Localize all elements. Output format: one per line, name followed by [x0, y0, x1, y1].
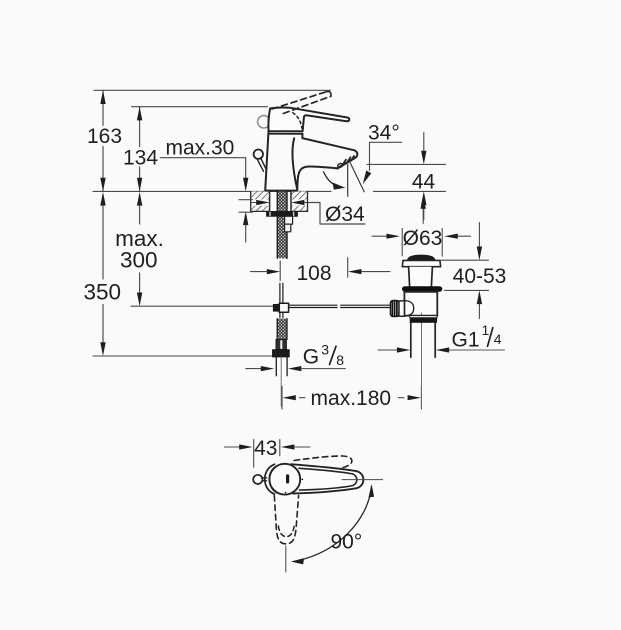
- waste O-ring seal: [402, 286, 442, 292]
- supply threaded rod: [277, 319, 287, 340]
- svg-text:34°: 34°: [368, 122, 400, 145]
- svg-text:90°: 90°: [331, 530, 363, 553]
- svg-text:300: 300: [120, 248, 158, 273]
- pull rod knob: [254, 150, 267, 172]
- lever up position dashed: [294, 456, 352, 468]
- reference line raised-handle top: [94, 89, 331, 91]
- svg-text:Ø63: Ø63: [403, 227, 443, 250]
- waste body: [404, 292, 437, 316]
- horizontal actuating rod: [289, 305, 391, 307]
- horizontal centerline: [342, 479, 383, 481]
- 90 degree swing arc: [291, 484, 374, 564]
- 34 degree stream annotation: [324, 122, 402, 197]
- supply hex nut G3/8: [273, 350, 290, 357]
- pull rod cross fitting: [273, 303, 289, 317]
- centerline below faucet: [280, 357, 282, 406]
- waste knob collar: [399, 301, 405, 316]
- svg-text:G1: G1: [452, 329, 480, 352]
- lever closed position dashed: [274, 496, 298, 544]
- dimension Ø34 arrows and leader: [252, 200, 366, 226]
- handle lever and cap: [268, 107, 349, 133]
- mounting flange washer: [267, 211, 298, 216]
- waste plug flange: [402, 260, 440, 266]
- supply pipe stub: [276, 357, 287, 376]
- pop-up pull rod upper: [280, 283, 283, 303]
- svg-text:1: 1: [482, 322, 490, 338]
- pop-up travel arrow: [421, 196, 426, 224]
- dimension 44: [367, 133, 446, 220]
- handle raised-position ghost bump: [258, 116, 270, 128]
- dimension 108: [251, 258, 391, 286]
- deck slab right block with hatch: [291, 191, 309, 211]
- svg-text:108: 108: [296, 262, 331, 285]
- reference line supply connection level: [93, 355, 273, 357]
- waste plug dome: [408, 255, 435, 260]
- waste control knob knurled: [390, 301, 399, 317]
- supply collar: [276, 339, 286, 349]
- reference line deck surface: [93, 190, 446, 192]
- reference line pop-up rod level: [131, 305, 273, 307]
- svg-text:40-53: 40-53: [453, 265, 507, 288]
- svg-text:4: 4: [494, 331, 502, 347]
- dimension 163: [87, 90, 122, 191]
- waste neck: [409, 267, 433, 287]
- deck slab left block with hatch: [239, 191, 270, 212]
- svg-text:350: 350: [84, 280, 122, 305]
- dimension max.180: [282, 386, 421, 410]
- waste centerline: [421, 313, 423, 406]
- faucet shank threaded: [277, 191, 287, 258]
- raised handle dashed: [272, 91, 331, 113]
- vertical centerline: [285, 546, 287, 572]
- waste tailpiece: [411, 323, 435, 357]
- dimension 134: [123, 107, 158, 192]
- dimension max.300: [115, 192, 164, 306]
- pull knob small circle top view: [253, 475, 266, 484]
- dimension G1 1/4: [378, 322, 505, 353]
- spout aerator detail: [337, 156, 354, 168]
- svg-text:8: 8: [336, 352, 344, 368]
- svg-text:max.30: max.30: [166, 136, 235, 159]
- hidden cap edge dotted: [293, 113, 302, 129]
- dimension 40-53: [441, 223, 506, 319]
- dimension 43: [225, 437, 311, 467]
- svg-text:134: 134: [123, 147, 158, 170]
- waste slip nut band: [410, 316, 437, 323]
- dimension Ø63: [372, 227, 471, 256]
- svg-text:max.180: max.180: [311, 387, 392, 410]
- svg-text:44: 44: [412, 171, 436, 194]
- faucet body and spout outline: [265, 132, 357, 191]
- dimension max.30 deck thickness: [160, 136, 248, 242]
- dimension 350: [84, 192, 122, 356]
- svg-text:3: 3: [321, 342, 329, 358]
- svg-text:Ø34: Ø34: [325, 203, 365, 226]
- mounting nut: [285, 216, 293, 232]
- svg-text:G: G: [303, 346, 319, 369]
- lever open position solid: [289, 464, 363, 493]
- svg-text:43: 43: [254, 437, 277, 460]
- handle boss cap circle: [265, 464, 303, 495]
- reference line lowered-handle top: [132, 106, 268, 108]
- dimension G3/8: [246, 342, 345, 372]
- svg-text:163: 163: [87, 125, 122, 148]
